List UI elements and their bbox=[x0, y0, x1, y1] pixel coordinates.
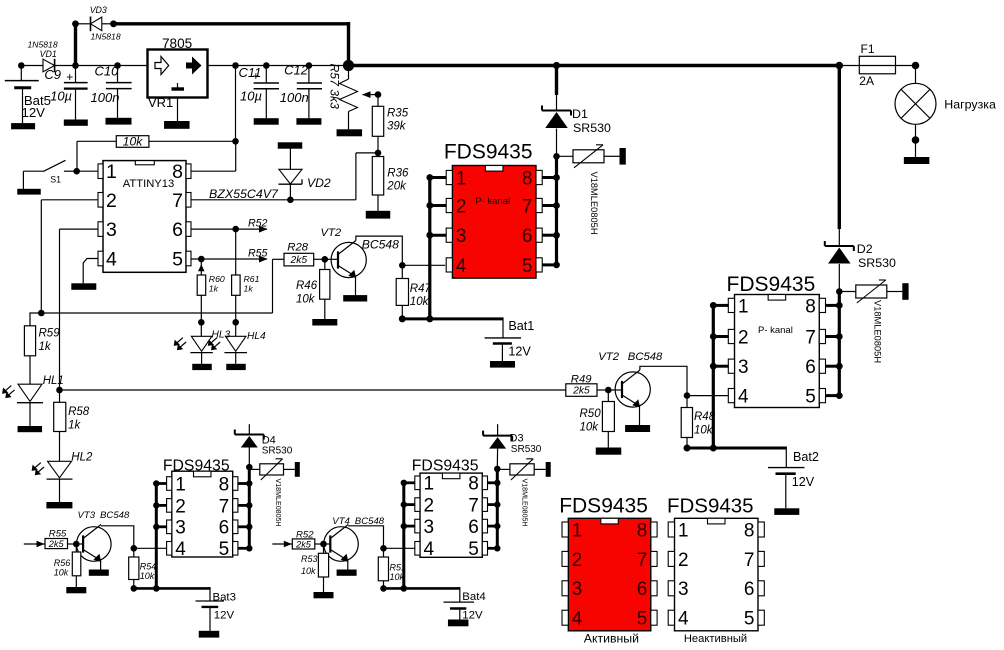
svg-text:D3: D3 bbox=[510, 433, 524, 445]
battery Bat2 12V bbox=[768, 447, 819, 515]
svg-text:10k: 10k bbox=[54, 568, 69, 578]
svg-text:4: 4 bbox=[106, 249, 117, 271]
node pin3 - R58 junction with long wire right bbox=[56, 387, 566, 394]
svg-text:10k: 10k bbox=[296, 294, 316, 306]
svg-text:7: 7 bbox=[468, 496, 479, 517]
svg-text:7: 7 bbox=[219, 496, 230, 517]
svg-text:VD2: VD2 bbox=[307, 176, 331, 190]
svg-text:3: 3 bbox=[456, 226, 467, 247]
svg-text:2: 2 bbox=[106, 190, 117, 212]
diode D1 SR530 bbox=[542, 66, 611, 157]
svg-text:1: 1 bbox=[424, 474, 435, 495]
svg-text:1N5818: 1N5818 bbox=[91, 32, 121, 42]
svg-text:VT2: VT2 bbox=[321, 227, 342, 239]
svg-text:8: 8 bbox=[219, 474, 230, 495]
svg-text:2: 2 bbox=[678, 550, 689, 571]
node R52-R53-VT4 base bbox=[320, 541, 330, 548]
diode D2 SR530 bbox=[825, 229, 896, 292]
svg-text:R60: R60 bbox=[209, 274, 225, 284]
svg-text:VT2: VT2 bbox=[598, 351, 619, 363]
varistor RU3 V18MLE0805H bbox=[246, 459, 300, 527]
wire VT4 collector to R51 node bbox=[348, 526, 383, 549]
svg-text:2k5: 2k5 bbox=[289, 255, 307, 266]
svg-text:1k: 1k bbox=[39, 341, 52, 353]
svg-text:3: 3 bbox=[678, 579, 689, 600]
switch S1 bbox=[17, 160, 76, 194]
svg-text:10k: 10k bbox=[140, 571, 155, 581]
svg-text:C9: C9 bbox=[44, 67, 61, 82]
wire Bat5 to VD1 bbox=[21, 65, 43, 67]
svg-text:SR530: SR530 bbox=[511, 444, 542, 455]
resistor R56 10k bbox=[54, 544, 87, 593]
svg-text:10k: 10k bbox=[390, 572, 405, 582]
resistor R55 2k5 bbox=[45, 529, 76, 549]
resistor R60 1k bbox=[197, 259, 225, 336]
resistor R54 10k bbox=[129, 548, 157, 588]
svg-text:R59: R59 bbox=[39, 328, 61, 340]
wire pin5 net with arrow R55 bbox=[191, 247, 267, 262]
zener diode VD2 BZX55C4V7 bbox=[209, 142, 331, 203]
svg-text:4: 4 bbox=[424, 539, 435, 560]
svg-text:4: 4 bbox=[678, 609, 689, 630]
svg-text:V18MLE0805H: V18MLE0805H bbox=[274, 479, 282, 527]
svg-text:R57 3k3: R57 3k3 bbox=[328, 64, 342, 110]
svg-text:10k: 10k bbox=[410, 296, 430, 308]
resistor R47 10k bbox=[396, 265, 431, 319]
MOSFET U4 FDS9435 (third) bbox=[163, 458, 238, 561]
resistor R36 20k bbox=[366, 157, 409, 219]
diode D3 SR530 bbox=[483, 424, 542, 469]
svg-text:S1: S1 bbox=[50, 175, 61, 185]
svg-text:R52: R52 bbox=[248, 218, 268, 230]
node R54 top to FDS3 pin4 bbox=[131, 545, 168, 552]
wire VD1 to node C9 bbox=[55, 62, 79, 69]
input arrow R52 to VT4 bbox=[272, 541, 292, 548]
wire thick drop to D2 bbox=[838, 64, 841, 229]
svg-text:10k: 10k bbox=[301, 566, 316, 576]
wire thick riser to VD3 node bbox=[72, 20, 79, 65]
svg-text:SR530: SR530 bbox=[573, 121, 611, 135]
svg-text:12V: 12V bbox=[22, 105, 46, 120]
wire left rail of FDS1 bbox=[426, 174, 446, 319]
svg-text:6: 6 bbox=[744, 579, 755, 600]
svg-text:HL4: HL4 bbox=[247, 331, 266, 342]
wire thick 12V rail top bbox=[349, 62, 844, 70]
resistor R52 2k5 bbox=[292, 530, 323, 550]
wire pin2 long horizontal to R28 riser bbox=[41, 259, 284, 313]
diode D4 SR530 bbox=[235, 424, 293, 467]
MOSFET U3 FDS9435 (second) bbox=[727, 273, 826, 407]
wire thick to Bat4 bbox=[380, 585, 460, 592]
lamp load (Nagruzka) bbox=[895, 62, 996, 164]
svg-text:FDS9435: FDS9435 bbox=[444, 141, 533, 164]
svg-text:2k5: 2k5 bbox=[572, 385, 590, 396]
svg-text:SR530: SR530 bbox=[262, 445, 293, 456]
node R47 top junction to FDS1 pin4 bbox=[399, 262, 445, 269]
transistor VT3 BC548 bbox=[77, 510, 130, 562]
wire VT2b emitter to ground bbox=[625, 406, 650, 432]
svg-text:3: 3 bbox=[106, 219, 117, 241]
node R35-R36 junction bbox=[375, 150, 382, 157]
resistor R59 1k bbox=[24, 313, 60, 384]
svg-text:4: 4 bbox=[175, 539, 186, 560]
battery Bat4 12V bbox=[444, 587, 486, 626]
svg-text:2k5: 2k5 bbox=[295, 539, 312, 549]
svg-text:R36: R36 bbox=[387, 168, 409, 180]
svg-text:1: 1 bbox=[106, 161, 117, 183]
battery Bat3 12V bbox=[196, 587, 236, 638]
battery Bat5 12V bbox=[5, 62, 51, 129]
diode VD3 1N5818 bbox=[76, 5, 121, 42]
capacitor C10 100n bbox=[91, 63, 132, 124]
svg-text:R28: R28 bbox=[287, 242, 308, 254]
svg-text:100n: 100n bbox=[91, 90, 120, 105]
svg-text:2: 2 bbox=[175, 496, 186, 517]
wire thick to Bat3 bbox=[131, 585, 211, 592]
svg-text:P- kanal: P- kanal bbox=[475, 196, 510, 207]
wire pin6 net with arrow R52 bbox=[191, 218, 267, 233]
svg-text:7: 7 bbox=[172, 190, 183, 212]
resistor 10k (reset pullup) bbox=[77, 134, 149, 171]
svg-text:VD1: VD1 bbox=[40, 49, 57, 59]
svg-text:R61: R61 bbox=[244, 274, 260, 284]
wire left rail of FDS3 bbox=[153, 480, 167, 588]
microcontroller U1 ATTINY13 bbox=[98, 161, 191, 273]
svg-text:10k: 10k bbox=[123, 134, 144, 148]
svg-text:R54: R54 bbox=[140, 561, 157, 571]
svg-text:D2: D2 bbox=[857, 242, 873, 256]
svg-text:BC548: BC548 bbox=[100, 510, 130, 521]
svg-text:8: 8 bbox=[805, 296, 816, 317]
wiper arrow of R57 to R35 bbox=[362, 91, 381, 106]
svg-text:3: 3 bbox=[175, 518, 186, 539]
svg-text:6: 6 bbox=[805, 357, 816, 378]
resistor R49 2k5 bbox=[566, 373, 609, 396]
svg-text:R35: R35 bbox=[387, 107, 409, 119]
svg-text:3: 3 bbox=[424, 517, 435, 538]
svg-text:Bat2: Bat2 bbox=[793, 450, 819, 464]
svg-text:HL2: HL2 bbox=[71, 451, 93, 463]
svg-text:5: 5 bbox=[637, 609, 648, 630]
svg-text:+: + bbox=[253, 71, 260, 83]
wire VT2b collector to R48 node bbox=[640, 366, 687, 395]
svg-text:C12: C12 bbox=[284, 63, 309, 78]
resistor R50 10k bbox=[580, 390, 622, 455]
resistor R51 10k bbox=[378, 548, 406, 588]
wire pin3 net bbox=[60, 229, 99, 390]
wire right rail of FDS4 bbox=[488, 469, 501, 552]
svg-text:R58: R58 bbox=[68, 406, 90, 418]
svg-text:10µ: 10µ bbox=[240, 89, 262, 104]
svg-text:6: 6 bbox=[172, 219, 183, 241]
svg-text:10k: 10k bbox=[580, 422, 600, 434]
battery Bat1 12V bbox=[485, 318, 535, 368]
diode VD1 1N5818 bbox=[28, 40, 58, 73]
svg-text:12V: 12V bbox=[462, 609, 483, 621]
svg-text:4: 4 bbox=[572, 609, 583, 630]
fuse F1 2A bbox=[839, 42, 915, 88]
wire pin4 to ground bbox=[71, 259, 98, 290]
resistor R53 10k bbox=[301, 544, 334, 598]
svg-text:6: 6 bbox=[468, 517, 479, 538]
node pin2 wire junction bbox=[38, 310, 45, 317]
varistor RU4 V18MLE0805H bbox=[494, 459, 551, 527]
resistor R58 1k bbox=[54, 390, 90, 461]
resistor R61 1k bbox=[232, 229, 260, 336]
wire right rail of FDS1 bbox=[542, 156, 560, 268]
svg-text:FDS9435: FDS9435 bbox=[559, 495, 648, 518]
svg-text:R51: R51 bbox=[390, 562, 407, 572]
svg-text:5: 5 bbox=[522, 256, 533, 277]
svg-text:7: 7 bbox=[522, 196, 533, 217]
LED HL1 bbox=[2, 375, 64, 432]
svg-text:Нагрузка: Нагрузка bbox=[944, 97, 996, 111]
wire VT2 emitter to ground bbox=[343, 277, 367, 302]
svg-text:1: 1 bbox=[456, 168, 467, 189]
svg-text:10k: 10k bbox=[694, 425, 714, 437]
svg-text:1: 1 bbox=[678, 520, 689, 541]
svg-text:7: 7 bbox=[805, 327, 816, 348]
svg-text:V18MLE0805H: V18MLE0805H bbox=[872, 300, 882, 363]
svg-text:BC548: BC548 bbox=[362, 238, 399, 252]
node R49-R50-VT2b base bbox=[605, 387, 622, 394]
svg-text:1k: 1k bbox=[209, 284, 219, 294]
svg-text:7: 7 bbox=[637, 550, 648, 571]
node pin1 junction bbox=[73, 168, 98, 175]
LED HL2 bbox=[32, 451, 93, 508]
svg-text:C10: C10 bbox=[95, 63, 120, 78]
svg-text:BC548: BC548 bbox=[628, 351, 663, 363]
svg-text:8: 8 bbox=[744, 520, 755, 541]
svg-text:2: 2 bbox=[572, 550, 583, 571]
wire 5V rail after regulator bbox=[208, 62, 349, 69]
transistor VT2 BC548 (second) bbox=[598, 351, 663, 408]
svg-text:+: + bbox=[66, 70, 73, 84]
capacitor C9 10u electrolytic bbox=[44, 66, 87, 126]
svg-text:100n: 100n bbox=[280, 90, 309, 105]
legend FDS9435 inactive (white) bbox=[667, 495, 764, 645]
svg-text:6: 6 bbox=[637, 579, 648, 600]
MOSFET U2 FDS9435 (red, active) bbox=[444, 141, 542, 278]
svg-text:5: 5 bbox=[219, 539, 230, 560]
svg-text:R48: R48 bbox=[694, 411, 716, 423]
svg-text:Активный: Активный bbox=[584, 632, 639, 646]
svg-text:1: 1 bbox=[738, 296, 749, 317]
svg-text:FDS9435: FDS9435 bbox=[412, 458, 479, 475]
svg-text:5: 5 bbox=[468, 539, 479, 560]
svg-text:4: 4 bbox=[738, 387, 749, 408]
svg-text:R50: R50 bbox=[580, 408, 602, 420]
varistor RU1 V18MLE0805H bbox=[553, 145, 626, 235]
svg-text:Bat1: Bat1 bbox=[508, 319, 534, 333]
resistor R46 10k bbox=[296, 259, 337, 325]
svg-text:SR530: SR530 bbox=[858, 256, 896, 270]
LED HL4 bbox=[208, 319, 266, 370]
LED HL3 bbox=[174, 319, 231, 370]
node R28-R46-VT2 base bbox=[322, 256, 339, 263]
svg-text:3: 3 bbox=[572, 579, 583, 600]
svg-text:1k: 1k bbox=[244, 284, 254, 294]
svg-text:5: 5 bbox=[172, 249, 183, 271]
svg-text:V18MLE0805H: V18MLE0805H bbox=[520, 479, 528, 527]
wire left rail of FDS2 bbox=[710, 302, 729, 448]
wire right rail of FDS3 bbox=[238, 467, 253, 551]
wire thick to Bat1 bbox=[399, 315, 503, 322]
svg-text:10µ: 10µ bbox=[50, 89, 72, 104]
wire 10k pullup net (rail to pin8) bbox=[149, 66, 239, 172]
transistor VT4 BC548 bbox=[324, 516, 385, 562]
wire node C9 to C10 node and 7805 input bbox=[76, 62, 148, 69]
svg-text:39k: 39k bbox=[387, 121, 407, 133]
svg-text:VD3: VD3 bbox=[90, 5, 107, 15]
svg-text:ATTINY13: ATTINY13 bbox=[123, 178, 174, 190]
wire pin2 net to lower-left bbox=[41, 200, 98, 313]
svg-text:1: 1 bbox=[572, 520, 583, 541]
trimmer resistor R57 3k3 bbox=[328, 60, 363, 136]
svg-text:1: 1 bbox=[175, 474, 186, 495]
svg-text:F1: F1 bbox=[861, 42, 875, 56]
svg-text:HL1: HL1 bbox=[43, 375, 64, 387]
input arrow R55 to VT3 bbox=[24, 541, 45, 548]
svg-text:P- kanal: P- kanal bbox=[758, 325, 793, 336]
wire right rail of FDS2 bbox=[825, 292, 843, 400]
transistor VT2 BC548 (first) bbox=[321, 227, 400, 278]
svg-text:R53: R53 bbox=[301, 554, 318, 564]
svg-text:7: 7 bbox=[744, 550, 755, 571]
svg-text:BZX55C4V7: BZX55C4V7 bbox=[209, 187, 279, 201]
svg-text:R55: R55 bbox=[248, 247, 268, 259]
wire VT2 collector to R47 node bbox=[356, 236, 402, 265]
svg-text:8: 8 bbox=[637, 520, 648, 541]
svg-text:4: 4 bbox=[456, 256, 467, 277]
svg-text:3: 3 bbox=[738, 357, 749, 378]
svg-text:2k5: 2k5 bbox=[48, 539, 65, 549]
svg-text:VT4: VT4 bbox=[332, 516, 350, 527]
svg-text:12V: 12V bbox=[792, 475, 815, 489]
svg-text:Bat3: Bat3 bbox=[213, 591, 236, 603]
svg-text:VR1: VR1 bbox=[148, 95, 173, 110]
svg-text:8: 8 bbox=[522, 168, 533, 189]
svg-text:2: 2 bbox=[456, 196, 467, 217]
wire thick top rail from VD3 to corner bbox=[114, 22, 351, 65]
capacitor C12 100n bbox=[280, 63, 322, 125]
resistor R48 10k bbox=[681, 396, 716, 448]
MOSFET U5 FDS9435 (fourth) bbox=[412, 458, 488, 561]
node R48 top to FDS2 pin4 bbox=[684, 392, 729, 399]
svg-text:Неактивный: Неактивный bbox=[684, 633, 747, 645]
wire pin7 net to VD2 and R36 node bbox=[191, 153, 378, 200]
svg-text:5: 5 bbox=[744, 609, 755, 630]
resistor R35 39k bbox=[372, 106, 408, 153]
svg-text:12V: 12V bbox=[508, 344, 531, 358]
svg-text:R46: R46 bbox=[296, 280, 318, 292]
svg-text:2: 2 bbox=[738, 327, 749, 348]
svg-text:Bat4: Bat4 bbox=[462, 591, 485, 603]
svg-text:1k: 1k bbox=[68, 419, 81, 431]
svg-text:D1: D1 bbox=[572, 107, 588, 121]
legend FDS9435 active (red) bbox=[559, 495, 657, 646]
capacitor C11 10u bbox=[239, 65, 280, 125]
svg-text:6: 6 bbox=[219, 518, 230, 539]
node R51 top to FDS4 pin4 bbox=[380, 545, 415, 552]
svg-text:8: 8 bbox=[468, 474, 479, 495]
svg-text:2A: 2A bbox=[859, 74, 874, 88]
wire VR1 ground bbox=[164, 98, 190, 129]
svg-text:2: 2 bbox=[424, 496, 435, 517]
wire VT3 emitter to ground bbox=[89, 561, 109, 576]
svg-text:R56: R56 bbox=[54, 558, 71, 568]
svg-text:V18MLE0805H: V18MLE0805H bbox=[589, 172, 599, 235]
wire VT3 collector to R54 node bbox=[101, 526, 134, 549]
svg-text:5: 5 bbox=[805, 387, 816, 408]
wire VT4 emitter to ground bbox=[337, 561, 357, 576]
svg-text:6: 6 bbox=[522, 226, 533, 247]
svg-text:FDS9435: FDS9435 bbox=[667, 495, 754, 518]
svg-text:12V: 12V bbox=[214, 609, 235, 621]
svg-text:VT3: VT3 bbox=[78, 510, 96, 521]
wire thick to Bat2 bbox=[684, 445, 787, 452]
voltage regulator VR1 7805 bbox=[148, 36, 208, 110]
svg-text:20k: 20k bbox=[386, 181, 407, 193]
wire left rail of FDS4 bbox=[401, 480, 416, 589]
svg-text:FDS9435: FDS9435 bbox=[727, 273, 816, 296]
resistor R28 2k5 bbox=[284, 242, 325, 266]
node R55-R56-VT3 base bbox=[73, 541, 83, 548]
varistor RU2 V18MLE0805H bbox=[836, 280, 909, 363]
